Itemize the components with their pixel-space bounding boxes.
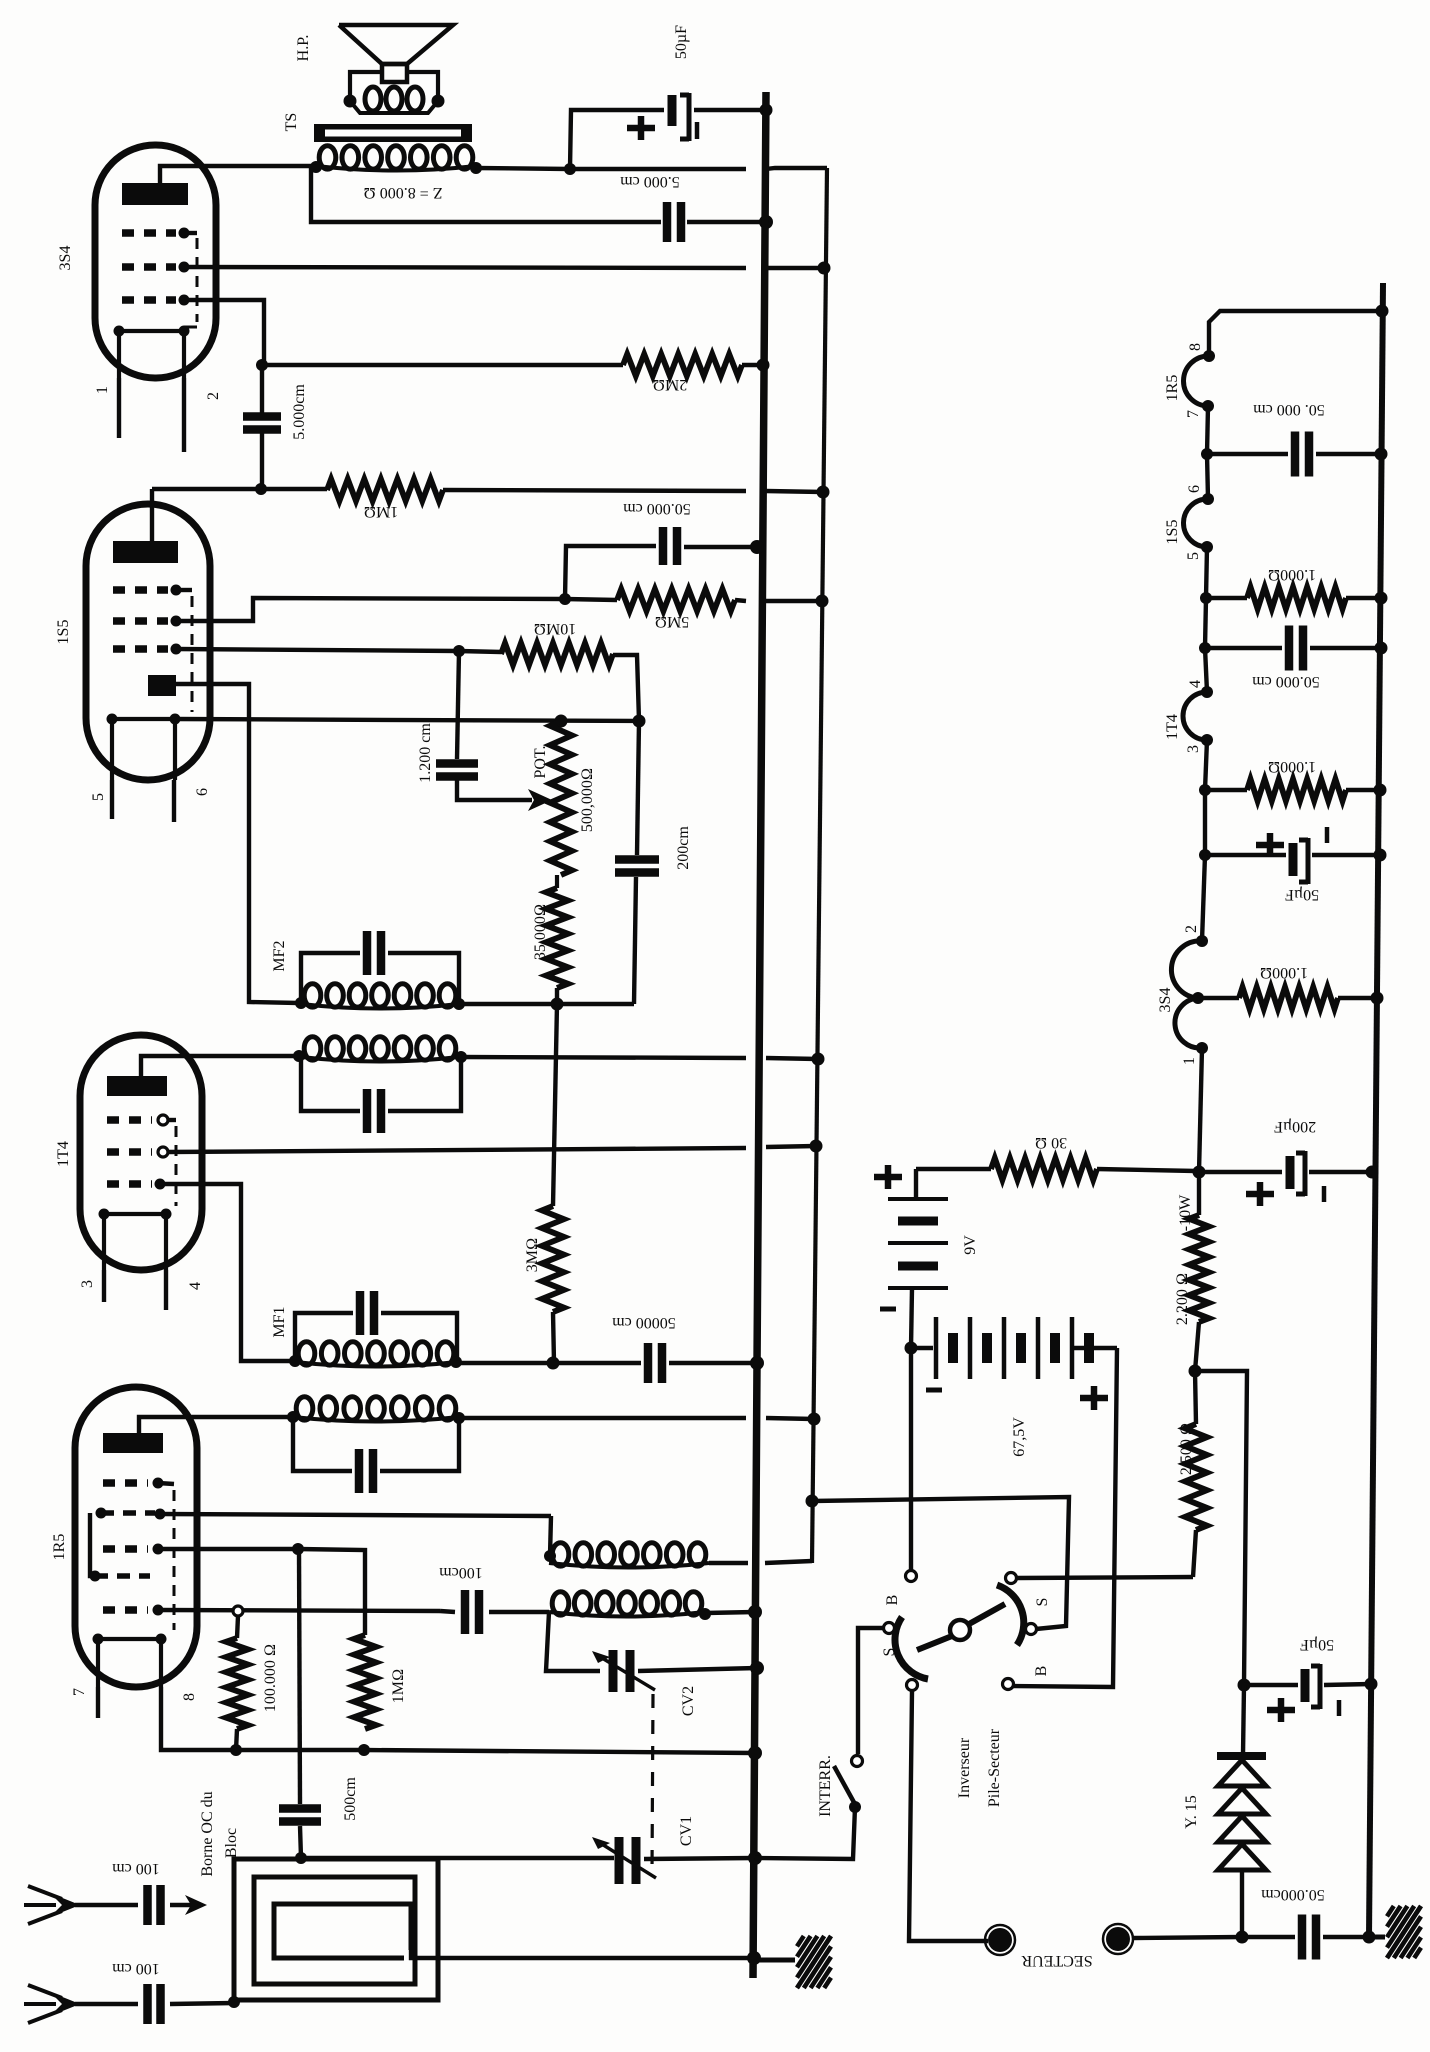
1T4 grid row3 control: [107, 1180, 152, 1188]
capacitor 50.000cm screen bypass: [663, 527, 677, 565]
tube 1R5 (converter): [75, 1387, 197, 1687]
1R5 anode wire: [139, 1417, 293, 1433]
1R5 pin 8 lead to ground line: [161, 1687, 236, 1750]
1S5 diode plate: [148, 675, 176, 696]
inverter right contact S: [1006, 1573, 1017, 1584]
1R5 filament: [98, 1639, 161, 1687]
svg-text:1T4: 1T4: [55, 1141, 72, 1167]
svg-text:CV2: CV2: [680, 1686, 697, 1716]
1T4 anode wire: [141, 1056, 299, 1076]
1R5 osc grid wire: [158, 1547, 298, 1551]
svg-text:Z = 8.000 Ω: Z = 8.000 Ω: [363, 184, 442, 201]
svg-text:1: 1: [1181, 1057, 1198, 1065]
svg-text:50µF: 50µF: [673, 25, 690, 59]
1R5 signal grid wire: [158, 1610, 440, 1611]
svg-text:50. 000 cm: 50. 000 cm: [1253, 401, 1325, 418]
wire cap to ground bus: [694, 108, 768, 112]
1R5 filament arc: [1184, 356, 1209, 406]
svg-text:9V: 9V: [962, 1235, 979, 1255]
antenna 2 symbol: [28, 1985, 62, 1998]
1T4 filament: [104, 1214, 166, 1270]
1S5 diode wire to MF2: [176, 684, 299, 1003]
1S5 control grid wire: [176, 649, 459, 651]
1S5 pin 6 lead: [172, 780, 176, 822]
plus sign 67.5V: [1080, 1386, 1108, 1410]
SECTEUR terminal right: [1106, 1927, 1130, 1951]
3S4 pin 2 dot: [1196, 935, 1208, 947]
1T4 grid row1: [107, 1116, 152, 1124]
svg-text:1.000Ω: 1.000Ω: [1268, 566, 1316, 583]
svg-text:7: 7: [1185, 410, 1202, 418]
svg-text:H.P.: H.P.: [295, 35, 312, 62]
resistor 1.000 ohm (b): [1199, 784, 1211, 796]
plus sign 50uF: [627, 116, 655, 140]
1R5 grid row5 signal: [103, 1606, 148, 1614]
INTERR blade: [834, 1766, 856, 1806]
branch 200cm capacitor: [637, 721, 639, 855]
1S5 filament arc: [1183, 499, 1208, 547]
1R5 pin 7 lead: [96, 1687, 100, 1718]
resistor 100.000 ohm: [237, 1616, 238, 1638]
svg-text:200cm: 200cm: [675, 826, 692, 870]
1T4 pin 3 lead: [102, 1270, 106, 1302]
resistor 2M ohm grid leak: [262, 363, 623, 367]
wire to rectifier node: [1195, 1371, 1247, 1685]
filament chain top wire: [1209, 311, 1382, 356]
resistor 1M ohm (osc grid leak): [354, 1635, 376, 1729]
svg-text:50.000 cm: 50.000 cm: [623, 500, 691, 517]
junction grid/2M/5000cm: [256, 359, 268, 371]
frame antenna outer turn: [234, 1859, 438, 2000]
resistor 35.000 ohm: [546, 888, 568, 988]
1R5 pin 7 dot: [1202, 400, 1214, 412]
MF1 primary (1R5 anode load): [296, 1397, 313, 1420]
3S4 anode wire: [160, 166, 316, 183]
1S5 pin 6 dot: [1202, 493, 1214, 505]
3S4 pin 1 lead: [117, 378, 121, 438]
svg-text:1R5: 1R5: [1164, 375, 1181, 402]
svg-text:2.200 Ω: 2.200 Ω: [1174, 1273, 1191, 1325]
resistor 1.000 ohm (a): [1200, 592, 1212, 604]
frame antenna tap to ground bus: [411, 1950, 754, 1958]
1T4 pin 3 dot: [1201, 734, 1213, 746]
electrolytic 200uF: [1199, 1170, 1282, 1174]
svg-text:500,000Ω: 500,000Ω: [579, 768, 596, 832]
3S4 grid g1 (row3): [122, 296, 176, 304]
filament ground line to bus: [236, 1748, 364, 1752]
svg-text:INTERR.: INTERR.: [817, 1755, 834, 1817]
svg-text:5.000cm: 5.000cm: [291, 384, 308, 440]
resistor 1M ohm: [327, 479, 443, 501]
loudspeaker voice coil: [365, 87, 381, 111]
svg-text:1.000Ω: 1.000Ω: [1268, 758, 1316, 775]
svg-text:1MΩ: 1MΩ: [390, 1669, 407, 1704]
3S4 pin 1 dot: [1196, 1042, 1208, 1054]
svg-text:1MΩ: 1MΩ: [364, 503, 399, 520]
1R5 grid row3: [103, 1545, 148, 1553]
electrolytic 50uF filament: [1199, 849, 1211, 861]
svg-text:Bloc: Bloc: [223, 1828, 240, 1858]
antenna 1 symbol: [28, 1886, 62, 1899]
inverter lever: [917, 1636, 952, 1650]
1S5 anode line with 1M ohm: [152, 487, 327, 491]
svg-text:1.000Ω: 1.000Ω: [1260, 964, 1308, 981]
1S5 grid row1: [113, 586, 168, 594]
svg-text:TS: TS: [283, 113, 300, 132]
3S4 filament arc upper: [1171, 941, 1202, 998]
svg-text:6: 6: [194, 788, 211, 796]
svg-text:1T4: 1T4: [1164, 714, 1181, 740]
wire to filter cap 50uF: [570, 110, 664, 169]
1R5 anode plate: [103, 1433, 163, 1453]
detector line from 1S5 filament: [175, 719, 639, 721]
svg-text:3MΩ: 3MΩ: [524, 1238, 541, 1273]
svg-text:Inverseur: Inverseur: [956, 1737, 973, 1798]
svg-text:2: 2: [205, 392, 222, 400]
svg-text:1R5: 1R5: [51, 1534, 68, 1561]
CV2 padder loop: [546, 1612, 600, 1671]
3S4 filament: [119, 331, 184, 378]
1R5 screens tie bar: [90, 1513, 95, 1576]
tube 1T4 (IF pentode): [80, 1035, 202, 1270]
plus sign 9V: [874, 1165, 902, 1189]
MF2 primary (1T4 anode load): [304, 1037, 321, 1060]
svg-text:100 cm: 100 cm: [112, 1860, 160, 1877]
rectifier node 50uF: [1238, 1679, 1251, 1692]
inverter right wiper arc: [997, 1585, 1024, 1645]
svg-text:500cm: 500cm: [342, 1777, 359, 1821]
svg-text:67,5V: 67,5V: [1011, 1417, 1028, 1457]
resistor 30 ohm: [916, 1167, 991, 1171]
MF2 secondary to pot chain: [459, 1002, 634, 1006]
output transformer TS core: [314, 124, 472, 142]
1R5 screen wire corner to osc coil: [550, 1516, 551, 1556]
capacitor 50.000cm (1R5 filament): [1207, 452, 1288, 456]
svg-text:2.500 Ω: 2.500 Ω: [1178, 1423, 1195, 1475]
SECTEUR terminal left: [988, 1928, 1012, 1952]
loudspeaker frame wires: [350, 72, 382, 99]
1R5 screen wire to right: [160, 1514, 551, 1516]
loudspeaker H.P. cone: [339, 25, 453, 64]
resistor 5M ohm: [565, 599, 617, 600]
svg-text:B: B: [1033, 1666, 1050, 1677]
svg-text:2MΩ: 2MΩ: [653, 376, 688, 393]
3S4 grid g3 (row1): [122, 229, 176, 237]
capacitor 100cm osc grid: [440, 1611, 455, 1612]
antenna 1 coupling 100cm: [75, 1903, 138, 1907]
svg-text:3: 3: [1185, 745, 1202, 753]
3S4 grid wire: [184, 300, 264, 365]
potentiometer POT. 500,000 ohm: [550, 721, 572, 875]
wire 5000cm cap to ground bus: [687, 220, 766, 224]
main ground bus (left vertical): [753, 92, 766, 1978]
MF1 secondary to AVC line: [456, 1361, 553, 1365]
svg-text:10MΩ: 10MΩ: [534, 620, 577, 637]
svg-text:50µF: 50µF: [1285, 886, 1319, 903]
svg-text:8: 8: [181, 1693, 198, 1701]
resistor 2.200 ohm 10W: [1197, 1172, 1201, 1215]
svg-text:50µF: 50µF: [1300, 1636, 1334, 1653]
svg-text:POT.: POT.: [532, 745, 549, 778]
resistor 10M ohm: [459, 651, 501, 652]
oscillator feedback coil: [552, 1543, 569, 1566]
grid coupling capacitor 5.000cm: [260, 365, 264, 414]
1S5 pin 5 lead: [110, 780, 114, 819]
1S5 grid row2 screen: [113, 617, 168, 625]
capacitor 500cm: [279, 1809, 321, 1822]
inverter pivot: [950, 1620, 970, 1640]
1T4 anode plate: [107, 1076, 167, 1096]
svg-text:1S5: 1S5: [55, 620, 72, 645]
screen bypass branch: [565, 546, 656, 599]
svg-text:B: B: [884, 1595, 901, 1606]
3S4 anode plate: [122, 183, 188, 205]
svg-text:Pile-Secteur: Pile-Secteur: [986, 1728, 1003, 1807]
svg-text:MF1: MF1: [271, 1306, 288, 1337]
svg-text:MF2: MF2: [271, 940, 288, 971]
svg-text:100.000 Ω: 100.000 Ω: [262, 1644, 279, 1712]
electrolytic capacitor 50uF: [668, 95, 677, 126]
1S5 grid row3: [113, 645, 168, 653]
CV gang dashed link: [652, 1694, 653, 1872]
MF1 primary to B+ bus: [459, 1416, 746, 1420]
svg-text:1: 1: [94, 386, 111, 394]
svg-text:100 cm: 100 cm: [112, 1960, 160, 1977]
resistor 2.500 ohm: [1195, 1371, 1196, 1424]
svg-text:5: 5: [1185, 552, 1202, 560]
ground symbol left: [753, 1958, 795, 1963]
svg-text:35.000Ω: 35.000Ω: [532, 904, 549, 960]
9V minus wire: [911, 1288, 912, 1348]
INTERR top contact: [852, 1756, 863, 1767]
svg-text:1S5: 1S5: [1164, 520, 1181, 545]
loudspeaker voice coil box: [382, 64, 407, 82]
junction vertical 500cm: [299, 1549, 300, 1804]
B+ bus (vertical): [812, 168, 827, 1563]
tube 3S4 (output pentode): [95, 145, 216, 378]
AVC bypass capacitor 50.000cm: [553, 1361, 641, 1365]
svg-text:SECTEUR: SECTEUR: [1021, 1952, 1092, 1969]
CV2 arrow: [597, 1655, 655, 1690]
inverter left wiper arc: [895, 1617, 928, 1679]
INTERR wire to ground bus: [755, 1807, 855, 1859]
1T4 grid to MF1 secondary: [160, 1184, 295, 1361]
AVC resistor 3M ohm: [553, 1004, 557, 1206]
capacitor 1.200cm to pot wiper: [457, 651, 459, 759]
battery 9V: [914, 1169, 918, 1199]
wire primary to B+ node: [476, 168, 746, 169]
rectifier bottom wire: [1240, 1872, 1244, 1937]
line frame to CV1 to bus: [301, 1856, 614, 1860]
inverter right contact mid: [1026, 1624, 1037, 1635]
1T4 filament arc: [1183, 692, 1207, 740]
1T4 grid row2 screen: [107, 1148, 152, 1156]
MF1 secondary tuned circuit: [295, 1313, 353, 1361]
inverter right contact bottom: [1003, 1679, 1014, 1690]
svg-text:3S4: 3S4: [57, 246, 74, 271]
svg-text:100cm: 100cm: [439, 1564, 483, 1581]
right supply bus: [1369, 283, 1383, 1937]
svg-text:6: 6: [1186, 485, 1203, 493]
capacitor 50.000cm (b): [1199, 642, 1211, 654]
svg-text:-10W: -10W: [1177, 1194, 1194, 1231]
1S5 pin 5 dot: [1201, 541, 1213, 553]
svg-text:Y. 15: Y. 15: [1183, 1795, 1200, 1829]
svg-text:CV1: CV1: [678, 1816, 695, 1846]
1R5 grid row4: [95, 1573, 150, 1579]
svg-text:4: 4: [187, 1282, 204, 1290]
svg-text:8: 8: [1187, 343, 1204, 351]
svg-text:5.000 cm: 5.000 cm: [620, 173, 680, 190]
3S4 filament center tap: [1192, 992, 1204, 1004]
svg-text:3: 3: [79, 1280, 96, 1288]
output transformer primary coil: [319, 146, 336, 169]
1T4 pin 4 lead: [164, 1270, 168, 1310]
frame antenna middle turn: [254, 1877, 415, 1984]
transformer primary parallel loop: [311, 167, 661, 222]
battery plus wire down to B contact: [1013, 1348, 1117, 1687]
1S5 screen wire step: [176, 598, 565, 621]
1S5 anode plate: [113, 541, 178, 563]
electrolytic 50uF rectifier: [1301, 1669, 1310, 1702]
svg-text:Borne OC du: Borne OC du: [199, 1791, 216, 1876]
inverter left contact B: [906, 1571, 917, 1582]
variable capacitor CV1: [619, 1837, 636, 1884]
1S5 filament: [112, 719, 175, 780]
inverter left contact bottom: [907, 1680, 918, 1691]
oscillator grid coil: [552, 1592, 569, 1615]
svg-text:50000 cm: 50000 cm: [612, 1314, 676, 1331]
1R5 pin 8 dot: [1203, 350, 1215, 362]
svg-text:3S4: 3S4: [1157, 988, 1174, 1013]
capacitor 5.000cm (across primary): [667, 202, 681, 242]
mains wire to rectifier: [1133, 1937, 1242, 1938]
antenna 2 coupling 100cm: [75, 2002, 138, 2006]
svg-text:200µF: 200µF: [1274, 1118, 1316, 1135]
svg-text:7: 7: [71, 1688, 88, 1696]
rectifier Y.15 stack: [1243, 1685, 1244, 1755]
svg-text:S: S: [1034, 1598, 1051, 1607]
resistor 1.000 ohm (c): [1198, 996, 1239, 1000]
1T4 pin 4 dot: [1201, 686, 1213, 698]
MF2 primary to B+ bus: [461, 1057, 746, 1058]
3S4 filament arc lower: [1175, 998, 1202, 1048]
junction filament supply: [1193, 1166, 1206, 1179]
svg-text:4: 4: [1187, 680, 1204, 688]
capacitor 50.000cm mains: [1242, 1935, 1295, 1939]
inverter left contact mid: [884, 1623, 895, 1634]
1S5 anode wire: [150, 489, 154, 541]
B+ feed line to inverter switch: [806, 1495, 819, 1508]
frame antenna inner turn: [274, 1904, 411, 1958]
svg-text:30 Ω: 30 Ω: [1035, 1134, 1067, 1151]
1R5 grid row2: [101, 1510, 155, 1516]
wire pin1 down: [1199, 1048, 1202, 1172]
svg-text:50.000 cm: 50.000 cm: [1252, 673, 1320, 690]
svg-text:2: 2: [1183, 925, 1200, 933]
svg-text:50.000cm: 50.000cm: [1261, 1886, 1325, 1903]
3S4 screen wire to B+ bus: [184, 267, 746, 268]
ground symbol right: [1369, 1935, 1385, 1940]
svg-text:5MΩ: 5MΩ: [655, 613, 690, 630]
variable capacitor CV2: [613, 1650, 630, 1692]
MF2 secondary tuned circuit: [301, 953, 360, 1003]
svg-text:5: 5: [90, 793, 107, 801]
CV1 arrow: [597, 1841, 656, 1878]
battery 67.5V: [911, 1346, 933, 1350]
svg-text:1.200 cm: 1.200 cm: [417, 723, 434, 783]
3S4 grid g2 screen (row2): [122, 263, 176, 271]
tube 1S5 (diode-pentode): [86, 504, 210, 780]
3S4 pin 2 lead: [182, 378, 186, 452]
1T4 screen wire to B+ bus: [168, 1148, 746, 1152]
1R5 grid row1: [103, 1479, 148, 1487]
